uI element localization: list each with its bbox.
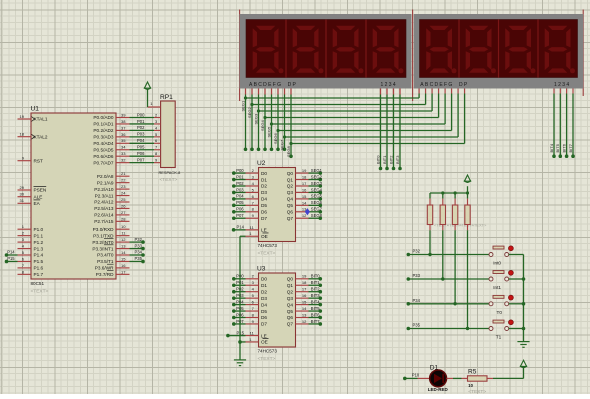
svg-text:Q5: Q5 xyxy=(287,203,294,208)
svg-text:SEG1: SEG1 xyxy=(240,100,245,111)
svg-text:15: 15 xyxy=(302,300,307,305)
svg-text:D7: D7 xyxy=(261,216,267,221)
svg-text:P0.0/AD0: P0.0/AD0 xyxy=(93,115,113,120)
svg-text:Q3: Q3 xyxy=(287,190,294,195)
svg-text:12: 12 xyxy=(121,237,126,242)
svg-text:12: 12 xyxy=(302,213,307,218)
svg-text:U3: U3 xyxy=(257,266,266,273)
svg-text:P0.6/AD6: P0.6/AD6 xyxy=(93,154,113,159)
svg-text:Q6: Q6 xyxy=(287,210,294,215)
svg-text:P2.0/A8: P2.0/A8 xyxy=(97,174,114,179)
svg-text:32: 32 xyxy=(121,158,126,163)
svg-text:<TEXT>: <TEXT> xyxy=(160,177,178,183)
svg-text:80C51: 80C51 xyxy=(31,281,45,286)
svg-text:Q1: Q1 xyxy=(287,177,294,182)
svg-text:D2: D2 xyxy=(261,289,267,294)
svg-text:D6: D6 xyxy=(261,210,267,215)
svg-text:P33: P33 xyxy=(413,273,421,278)
svg-text:Q6: Q6 xyxy=(287,315,294,320)
svg-text:17: 17 xyxy=(302,287,307,292)
svg-text:R5: R5 xyxy=(468,369,477,376)
svg-text:BIT3: BIT3 xyxy=(311,293,321,298)
svg-text:1234: 1234 xyxy=(554,82,571,88)
svg-text:25: 25 xyxy=(121,197,126,202)
svg-text:BIT5: BIT5 xyxy=(311,306,321,311)
svg-text:74HC573: 74HC573 xyxy=(258,349,278,354)
svg-text:D5: D5 xyxy=(261,203,267,208)
svg-text:SEG3: SEG3 xyxy=(253,113,258,124)
svg-text:D3: D3 xyxy=(261,296,267,301)
svg-text:P04: P04 xyxy=(236,194,244,199)
svg-text:ALE: ALE xyxy=(34,194,43,199)
svg-text:P14: P14 xyxy=(7,250,15,255)
svg-text:SEG8: SEG8 xyxy=(311,213,323,218)
svg-text:LE: LE xyxy=(261,228,267,233)
svg-text:P0.1/AD1: P0.1/AD1 xyxy=(93,122,113,127)
svg-text:T0: T0 xyxy=(497,310,503,315)
svg-text:SEG5: SEG5 xyxy=(311,194,323,199)
svg-text:<TEXT>: <TEXT> xyxy=(468,389,486,394)
svg-text:34: 34 xyxy=(121,145,126,150)
svg-text:16: 16 xyxy=(121,263,126,268)
svg-text:10: 10 xyxy=(121,224,126,229)
svg-text:P1.5: P1.5 xyxy=(34,259,44,264)
svg-text:D4: D4 xyxy=(261,197,267,202)
svg-text:P35: P35 xyxy=(413,323,421,328)
svg-text:31: 31 xyxy=(20,198,25,203)
svg-text:BIT5: BIT5 xyxy=(555,143,560,152)
svg-text:D1: D1 xyxy=(261,283,267,288)
svg-text:LE: LE xyxy=(261,333,267,338)
svg-text:Q1: Q1 xyxy=(287,283,294,288)
svg-text:RESPACK-8: RESPACK-8 xyxy=(159,170,181,175)
svg-text:21: 21 xyxy=(121,171,126,176)
svg-text:D6: D6 xyxy=(261,315,267,320)
svg-text:23: 23 xyxy=(121,184,126,189)
svg-text:P32: P32 xyxy=(413,249,421,254)
svg-text:<TEXT>: <TEXT> xyxy=(258,356,276,362)
svg-text:36: 36 xyxy=(121,132,126,137)
svg-text:P07: P07 xyxy=(137,157,145,162)
svg-text:D2: D2 xyxy=(261,184,267,189)
svg-text:P06: P06 xyxy=(137,151,145,156)
svg-text:28: 28 xyxy=(121,216,126,221)
svg-text:P34: P34 xyxy=(413,298,421,303)
svg-text:P33: P33 xyxy=(135,243,143,248)
svg-text:P3.0/RXD: P3.0/RXD xyxy=(93,227,114,232)
svg-text:22: 22 xyxy=(121,178,126,183)
svg-text:35: 35 xyxy=(121,138,126,143)
svg-text:P05: P05 xyxy=(236,200,244,205)
svg-text:18: 18 xyxy=(302,174,307,179)
svg-text:P2.3/A11: P2.3/A11 xyxy=(95,193,114,198)
svg-text:15: 15 xyxy=(121,256,126,261)
svg-text:Q2: Q2 xyxy=(287,184,294,189)
svg-text:Q7: Q7 xyxy=(287,322,294,327)
svg-text:P2.1/A9: P2.1/A9 xyxy=(97,180,114,185)
svg-text:P3.5/T1: P3.5/T1 xyxy=(97,259,114,264)
svg-text:1234: 1234 xyxy=(381,82,398,88)
svg-text:P0.5/AD5: P0.5/AD5 xyxy=(93,147,113,152)
svg-text:P34: P34 xyxy=(135,250,143,255)
svg-text:16: 16 xyxy=(302,187,307,192)
svg-text:P00: P00 xyxy=(236,168,244,173)
svg-text:SEG6: SEG6 xyxy=(273,133,278,144)
svg-text:17: 17 xyxy=(302,181,307,186)
svg-text:P35: P35 xyxy=(135,256,143,261)
svg-text:P0.3/AD3: P0.3/AD3 xyxy=(93,135,113,140)
svg-text:EA: EA xyxy=(34,201,41,206)
svg-text:27: 27 xyxy=(121,210,126,215)
svg-text:P1.4: P1.4 xyxy=(34,253,44,258)
svg-text:12: 12 xyxy=(302,319,307,324)
svg-text:26: 26 xyxy=(121,203,126,208)
svg-text:D5: D5 xyxy=(261,309,267,314)
svg-text:74HC573: 74HC573 xyxy=(258,243,278,248)
svg-text:P1.7: P1.7 xyxy=(34,272,44,277)
svg-text:19: 19 xyxy=(302,274,307,279)
svg-text:BIT6: BIT6 xyxy=(311,312,321,317)
svg-text:24: 24 xyxy=(121,190,126,195)
svg-text:19: 19 xyxy=(20,114,25,119)
svg-text:P15: P15 xyxy=(7,256,15,261)
svg-text:BIT7: BIT7 xyxy=(311,319,321,324)
svg-text:SEG4: SEG4 xyxy=(260,120,265,131)
svg-text:ABCDEFG DP: ABCDEFG DP xyxy=(249,82,297,88)
svg-text:Int1: Int1 xyxy=(493,285,501,290)
svg-text:BIT4: BIT4 xyxy=(311,299,321,304)
svg-text:BIT4: BIT4 xyxy=(549,143,554,152)
svg-text:P2.7/A15: P2.7/A15 xyxy=(94,219,114,224)
svg-text:SEG7: SEG7 xyxy=(311,207,323,212)
svg-text:18: 18 xyxy=(20,132,25,137)
svg-text:P0.7/AD7: P0.7/AD7 xyxy=(93,160,113,165)
svg-text:SEG2: SEG2 xyxy=(247,107,252,118)
svg-text:D3: D3 xyxy=(261,190,267,195)
svg-text:BIT6: BIT6 xyxy=(561,143,566,152)
svg-text:D7: D7 xyxy=(261,322,267,327)
svg-text:<TEXT>: <TEXT> xyxy=(258,251,276,257)
svg-text:SEG2: SEG2 xyxy=(311,174,323,179)
svg-text:P3.1/TXD: P3.1/TXD xyxy=(93,233,114,238)
svg-text:18: 18 xyxy=(302,280,307,285)
svg-text:BIT2: BIT2 xyxy=(388,155,393,164)
svg-text:38: 38 xyxy=(121,119,126,124)
svg-text:SEG7: SEG7 xyxy=(279,139,284,150)
svg-text:P3.6/WR: P3.6/WR xyxy=(95,266,114,271)
svg-text:RP1: RP1 xyxy=(160,94,173,101)
svg-text:U1: U1 xyxy=(31,106,40,113)
svg-text:13: 13 xyxy=(302,312,307,317)
svg-text:37: 37 xyxy=(121,125,126,130)
svg-text:Q4: Q4 xyxy=(287,302,294,307)
svg-text:P0.2/AD2: P0.2/AD2 xyxy=(93,128,113,133)
svg-text:P0.4/AD4: P0.4/AD4 xyxy=(93,141,113,146)
svg-text:14: 14 xyxy=(302,306,307,311)
svg-text:P01: P01 xyxy=(137,119,145,124)
svg-text:SEG6: SEG6 xyxy=(311,200,323,205)
svg-text:16: 16 xyxy=(302,293,307,298)
svg-text:Q7: Q7 xyxy=(287,216,294,221)
svg-text:P2.2/A10: P2.2/A10 xyxy=(94,187,114,192)
svg-text:BIT1: BIT1 xyxy=(382,155,387,164)
svg-text:33: 33 xyxy=(121,151,126,156)
svg-text:OE: OE xyxy=(261,234,268,239)
svg-text:D0: D0 xyxy=(261,171,267,176)
svg-text:SEG3: SEG3 xyxy=(311,181,323,186)
svg-text:BIT3: BIT3 xyxy=(395,155,400,164)
svg-text:P03: P03 xyxy=(137,132,145,137)
svg-text:P02: P02 xyxy=(236,181,244,186)
svg-text:17: 17 xyxy=(121,269,126,274)
svg-text:P3.3/INT1: P3.3/INT1 xyxy=(92,246,113,251)
svg-text:13: 13 xyxy=(121,243,126,248)
svg-text:P02: P02 xyxy=(137,125,145,130)
svg-text:19: 19 xyxy=(302,168,307,173)
svg-text:LED-RED: LED-RED xyxy=(428,387,449,392)
svg-text:P2.5/A13: P2.5/A13 xyxy=(94,206,114,211)
svg-text:P3.7/RD: P3.7/RD xyxy=(96,272,114,277)
svg-text:P05: P05 xyxy=(137,145,145,150)
svg-text:P1.0: P1.0 xyxy=(34,227,44,232)
svg-text:P14: P14 xyxy=(237,225,245,230)
svg-text:D1: D1 xyxy=(430,364,439,371)
svg-text:P06: P06 xyxy=(236,207,244,212)
svg-text:Q5: Q5 xyxy=(287,309,294,314)
svg-text:30: 30 xyxy=(20,192,25,197)
svg-text:BIT0: BIT0 xyxy=(311,274,321,279)
svg-text:14: 14 xyxy=(302,200,307,205)
svg-text:15: 15 xyxy=(302,194,307,199)
svg-text:P00: P00 xyxy=(137,112,145,117)
svg-text:P10: P10 xyxy=(412,372,420,377)
svg-text:Q4: Q4 xyxy=(287,197,294,202)
svg-text:P1.1: P1.1 xyxy=(34,233,44,238)
svg-text:SEG4: SEG4 xyxy=(311,187,323,192)
svg-text:BIT2: BIT2 xyxy=(311,287,321,292)
svg-text:<TEXT>: <TEXT> xyxy=(472,222,488,227)
svg-text:P32: P32 xyxy=(135,237,143,242)
svg-text:SEG5: SEG5 xyxy=(266,126,271,137)
svg-text:39: 39 xyxy=(121,112,126,117)
svg-text:BIT0: BIT0 xyxy=(375,155,380,164)
svg-text:14: 14 xyxy=(121,250,126,255)
svg-text:OE: OE xyxy=(261,340,268,345)
svg-text:Q3: Q3 xyxy=(287,296,294,301)
svg-text:P04: P04 xyxy=(137,138,145,143)
svg-text:SEG8: SEG8 xyxy=(286,146,291,157)
svg-text:<TEXT>: <TEXT> xyxy=(31,289,49,295)
svg-text:BIT7: BIT7 xyxy=(568,143,573,152)
svg-text:P1.2: P1.2 xyxy=(34,240,44,245)
svg-text:P2.6/A14: P2.6/A14 xyxy=(94,213,114,218)
svg-text:D1: D1 xyxy=(261,177,267,182)
svg-text:D4: D4 xyxy=(261,302,267,307)
svg-text:T1: T1 xyxy=(496,335,502,340)
svg-text:SEG1: SEG1 xyxy=(311,168,323,173)
svg-text:ABCDEFG DP: ABCDEFG DP xyxy=(420,82,468,88)
svg-text:10: 10 xyxy=(468,383,473,388)
svg-text:BIT1: BIT1 xyxy=(311,280,321,285)
svg-text:RST: RST xyxy=(34,158,44,163)
svg-text:PSEN: PSEN xyxy=(34,188,47,193)
svg-text:D0: D0 xyxy=(261,277,267,282)
svg-text:Q0: Q0 xyxy=(287,171,294,176)
svg-text:P03: P03 xyxy=(236,187,244,192)
svg-text:XTAL2: XTAL2 xyxy=(34,134,48,139)
svg-text:Int0: Int0 xyxy=(493,261,501,266)
svg-text:P01: P01 xyxy=(236,174,244,179)
svg-text:P3.4/T0: P3.4/T0 xyxy=(97,253,114,258)
svg-text:P1.3: P1.3 xyxy=(34,246,44,251)
svg-text:Q0: Q0 xyxy=(287,277,294,282)
svg-text:P2.4/A12: P2.4/A12 xyxy=(94,200,114,205)
svg-text:P07: P07 xyxy=(236,213,244,218)
svg-text:P3.2/INT0: P3.2/INT0 xyxy=(92,240,113,245)
svg-text:Q2: Q2 xyxy=(287,289,294,294)
svg-text:U2: U2 xyxy=(257,160,266,167)
svg-text:P1.6: P1.6 xyxy=(34,266,44,271)
svg-text:XTAL1: XTAL1 xyxy=(34,117,48,122)
svg-text:29: 29 xyxy=(20,185,25,190)
